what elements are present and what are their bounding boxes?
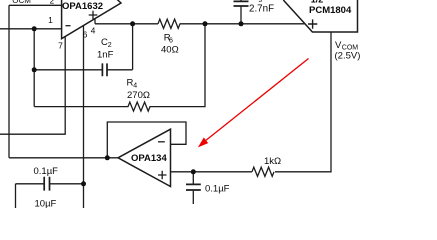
plus output marking U1	[89, 11, 98, 20]
svg-text:6: 6	[169, 37, 173, 44]
junction node C2 branch	[32, 67, 37, 72]
svg-text:6: 6	[83, 30, 88, 40]
junction node R4 top	[203, 21, 208, 26]
svg-text:1nF: 1nF	[97, 50, 114, 61]
minus input marking U3	[158, 141, 165, 143]
svg-text:4: 4	[133, 83, 137, 90]
svg-text:270Ω: 270Ω	[127, 90, 150, 101]
svg-text:0.1µF: 0.1µF	[205, 184, 230, 195]
svg-text:1/2: 1/2	[311, 0, 324, 5]
wire VOCM top stub to pin 2	[9, 4, 62, 6]
wire pin 1 input	[0, 28, 62, 30]
junction node 0.1uF left	[81, 181, 86, 186]
plus input marking U2	[308, 19, 317, 28]
svg-text:PCM1804: PCM1804	[309, 5, 352, 16]
resistor R6 40 ohm	[158, 19, 180, 28]
capacitor 0.1uF left	[16, 184, 84, 208]
svg-text:10µF: 10µF	[35, 198, 57, 208]
junction node C3	[239, 21, 244, 26]
wire inverting node vertical	[33, 29, 35, 107]
svg-text:OPA1632: OPA1632	[62, 1, 103, 12]
svg-text:(2.5V): (2.5V)	[335, 51, 361, 62]
svg-text:OPA134: OPA134	[131, 153, 167, 164]
svg-text:40Ω: 40Ω	[161, 44, 179, 55]
wire VCOM from PCM1804 down and left	[275, 32, 331, 172]
plus input marking U3	[158, 171, 167, 180]
svg-text:2: 2	[108, 42, 112, 49]
wire OPA134 output	[9, 157, 118, 159]
junction node inverting input	[32, 26, 37, 31]
op-amp U1 OPA1632 (cut off at top)	[62, 0, 121, 39]
capacitor 0.1uF right	[192, 172, 194, 204]
wire main output (pin 4 to PCM1804)	[95, 19, 305, 24]
svg-text:1: 1	[48, 15, 53, 25]
op-amp U3 OPA134	[118, 129, 171, 186]
wire to OPA134 + input	[171, 171, 253, 173]
resistor R4 270 ohm	[34, 24, 205, 111]
ADC U2 PCM1804 (cut off at top)	[283, 0, 357, 32]
svg-text:0.1µF: 0.1µF	[34, 166, 59, 177]
junction node 0.1uF right	[191, 169, 196, 174]
junction node C2 top	[130, 21, 135, 26]
svg-text:2.7nF: 2.7nF	[249, 4, 274, 15]
wire pin 7	[0, 37, 65, 134]
capacitor C2 1nF	[34, 24, 132, 70]
svg-text:1kΩ: 1kΩ	[264, 156, 281, 167]
svg-text:OCM: OCM	[12, 0, 31, 5]
svg-text:4: 4	[91, 26, 96, 36]
svg-text:2: 2	[50, 0, 55, 5]
red annotation arrow	[198, 59, 309, 148]
junction node OPA134 output	[105, 155, 110, 160]
wire feedback loop OPA134	[107, 122, 186, 158]
minus input marking U1	[66, 25, 71, 27]
wire pin 6	[83, 26, 85, 208]
svg-text:7: 7	[58, 41, 63, 51]
resistor R 1k ohm	[252, 167, 274, 176]
capacitor C3 2.7nF	[240, 0, 242, 24]
wire VOCM vertical (left rail)	[8, 5, 10, 158]
